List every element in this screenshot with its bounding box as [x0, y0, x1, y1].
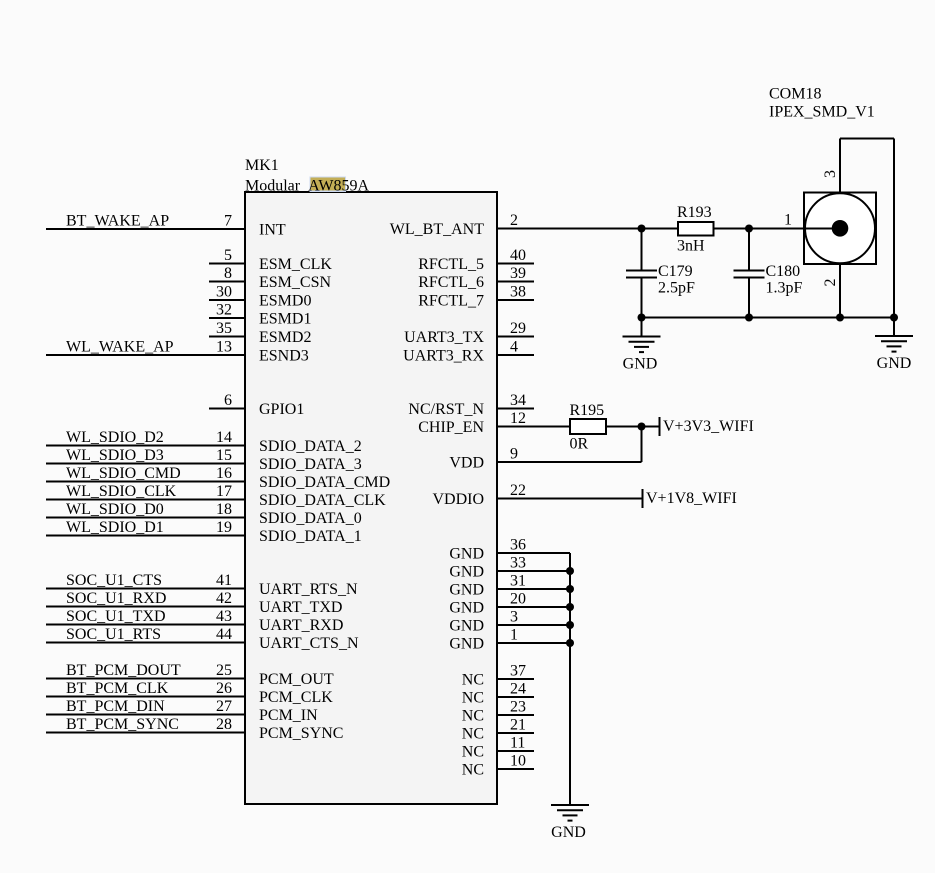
wire net WL_SDIO_D3 to pin 15: [46, 463, 245, 465]
svg-text:NC: NC: [462, 726, 484, 743]
svg-text:BT_PCM_DOUT: BT_PCM_DOUT: [66, 662, 181, 679]
wire C179 to ground: [641, 318, 643, 337]
svg-text:BT_PCM_CLK: BT_PCM_CLK: [66, 680, 169, 697]
svg-text:30: 30: [216, 284, 232, 301]
wire pin 5 stub: [209, 263, 245, 265]
wire bus to ground right: [893, 318, 895, 337]
wire net BT_PCM_DIN to pin 27: [46, 714, 245, 716]
wire net BT_PCM_CLK to pin 26: [46, 696, 245, 698]
svg-text:R195: R195: [570, 402, 605, 419]
svg-text:PCM_OUT: PCM_OUT: [259, 671, 334, 688]
svg-text:6: 6: [224, 392, 232, 409]
wire net WL_SDIO_CLK to pin 17: [46, 499, 245, 501]
svg-text:34: 34: [510, 392, 526, 409]
wire pin 24 stub: [497, 696, 534, 698]
wire VDD riser: [641, 427, 643, 463]
svg-text:9: 9: [510, 446, 518, 463]
svg-text:GND: GND: [449, 582, 484, 599]
svg-text:PCM_SYNC: PCM_SYNC: [259, 725, 343, 742]
junction C179 bottom: [638, 314, 646, 322]
svg-text:SDIO_DATA_0: SDIO_DATA_0: [259, 510, 362, 527]
junction GND bus pin 20: [566, 603, 574, 611]
svg-text:2.5pF: 2.5pF: [658, 280, 695, 297]
svg-text:Modular_AW859A: Modular_AW859A: [245, 178, 369, 195]
svg-text:BT_PCM_SYNC: BT_PCM_SYNC: [66, 716, 179, 733]
svg-text:SOC_U1_RTS: SOC_U1_RTS: [66, 626, 161, 643]
svg-text:3: 3: [822, 170, 839, 178]
svg-text:RFCTL_6: RFCTL_6: [418, 274, 484, 291]
svg-text:10: 10: [510, 753, 526, 770]
svg-text:24: 24: [510, 681, 526, 698]
svg-text:11: 11: [510, 735, 525, 752]
svg-text:PCM_IN: PCM_IN: [259, 707, 318, 724]
svg-text:ESMD0: ESMD0: [259, 293, 311, 310]
wire pin 38 stub: [497, 299, 534, 301]
wire COM18 pin2 down: [839, 264, 841, 318]
svg-text:CHIP_EN: CHIP_EN: [418, 419, 484, 436]
svg-text:INT: INT: [259, 222, 286, 239]
svg-text:WL_SDIO_D0: WL_SDIO_D0: [66, 501, 164, 518]
svg-text:41: 41: [216, 572, 232, 589]
svg-text:1: 1: [784, 212, 792, 229]
junction GND bus pin 33: [566, 567, 574, 575]
svg-text:7: 7: [224, 213, 232, 230]
svg-text:GND: GND: [449, 636, 484, 653]
wire net SOC_U1_CTS to pin 41: [46, 588, 245, 590]
wire pin 10 stub: [497, 768, 534, 770]
svg-text:1.3pF: 1.3pF: [766, 280, 803, 297]
junction VDD riser: [638, 423, 646, 431]
wire COM18 right down: [893, 139, 895, 318]
svg-text:26: 26: [216, 680, 232, 697]
svg-text:3: 3: [510, 609, 518, 626]
wire pin 30 stub: [209, 299, 245, 301]
junction at C180 top: [745, 225, 753, 233]
svg-text:VDD: VDD: [449, 455, 484, 472]
wire net WL_SDIO_D2 to pin 14: [46, 445, 245, 447]
svg-text:17: 17: [216, 483, 232, 500]
svg-text:8: 8: [224, 265, 232, 282]
wire CHIP_EN to R195: [497, 426, 570, 428]
svg-text:32: 32: [216, 302, 232, 319]
svg-text:GND: GND: [449, 564, 484, 581]
wire net SOC_U1_RXD to pin 42: [46, 606, 245, 608]
wire pin 8 stub: [209, 281, 245, 283]
svg-text:COM18: COM18: [769, 86, 821, 103]
wire ground bus under antenna: [642, 317, 895, 319]
svg-text:SDIO_DATA_1: SDIO_DATA_1: [259, 528, 362, 545]
svg-text:29: 29: [510, 320, 526, 337]
wire pin 4 stub: [497, 354, 534, 356]
svg-text:V+3V3_WIFI: V+3V3_WIFI: [663, 418, 754, 435]
svg-text:15: 15: [216, 447, 232, 464]
svg-text:36: 36: [510, 537, 526, 554]
svg-text:14: 14: [216, 429, 232, 446]
svg-text:SDIO_DATA_2: SDIO_DATA_2: [259, 438, 362, 455]
svg-text:IPEX_SMD_V1: IPEX_SMD_V1: [769, 104, 875, 121]
svg-text:ESMD2: ESMD2: [259, 329, 311, 346]
ground GND under C179: [623, 337, 661, 353]
svg-text:SOC_U1_RXD: SOC_U1_RXD: [66, 590, 166, 607]
connector COM18 body: [804, 193, 876, 265]
junction GND bus pin 3: [566, 621, 574, 629]
wire COM18 pin3 up: [839, 139, 841, 193]
svg-text:1: 1: [510, 627, 518, 644]
wire net BT_PCM_SYNC to pin 28: [46, 732, 245, 734]
wire GND pin 1: [497, 642, 570, 644]
svg-text:C179: C179: [658, 263, 693, 280]
wire net WL_WAKE_AP to pin 13: [46, 354, 245, 356]
svg-text:21: 21: [510, 717, 526, 734]
wire pin 23 stub: [497, 714, 534, 716]
svg-text:GPIO1: GPIO1: [259, 401, 304, 418]
wire COM18 pin1 into connector: [804, 228, 840, 230]
wire pin 39 stub: [497, 281, 534, 283]
svg-text:13: 13: [216, 339, 232, 356]
wire pin 34 stub: [497, 408, 534, 410]
svg-text:42: 42: [216, 590, 232, 607]
wire pin 35 stub: [209, 336, 245, 338]
svg-text:NC: NC: [462, 762, 484, 779]
wire pin 40 stub: [497, 263, 534, 265]
wire pin 21 stub: [497, 732, 534, 734]
wire VDDIO to V+1V8_WIFI: [497, 498, 643, 500]
svg-text:SDIO_DATA_3: SDIO_DATA_3: [259, 456, 362, 473]
svg-text:MK1: MK1: [245, 157, 279, 174]
svg-text:44: 44: [216, 626, 232, 643]
svg-text:NC: NC: [462, 744, 484, 761]
svg-text:UART_TXD: UART_TXD: [259, 599, 342, 616]
svg-text:0R: 0R: [570, 436, 589, 453]
wire COM18 top across: [840, 138, 894, 140]
wire pin 32 stub: [209, 317, 245, 319]
svg-text:GND: GND: [449, 618, 484, 635]
ground GND bottom: [551, 805, 589, 821]
component MK1 body: [245, 192, 497, 804]
junction COM18 pin3 return: [890, 314, 898, 322]
wire WL_BT_ANT pin2 to R193: [497, 228, 677, 230]
svg-text:28: 28: [216, 716, 232, 733]
power symbol V+1V8_WIFI: [642, 489, 644, 508]
ground GND right: [875, 336, 913, 352]
svg-text:40: 40: [510, 247, 526, 264]
svg-text:NC: NC: [462, 690, 484, 707]
wire pin 37 stub: [497, 678, 534, 680]
wire net WL_SDIO_CMD to pin 16: [46, 481, 245, 483]
svg-text:C180: C180: [766, 263, 801, 280]
svg-text:35: 35: [216, 320, 232, 337]
svg-text:ESND3: ESND3: [259, 348, 309, 365]
svg-text:5: 5: [224, 247, 232, 264]
svg-text:WL_SDIO_CLK: WL_SDIO_CLK: [66, 483, 177, 500]
svg-text:38: 38: [510, 284, 526, 301]
junction COM18 pin2: [836, 314, 844, 322]
inductor R193 body: [678, 222, 714, 236]
svg-text:ESM_CSN: ESM_CSN: [259, 274, 331, 291]
svg-text:25: 25: [216, 662, 232, 679]
svg-text:GND: GND: [449, 546, 484, 563]
value Modular_AW859A highlight: [310, 177, 347, 193]
svg-text:GND: GND: [877, 355, 912, 372]
svg-text:UART_RXD: UART_RXD: [259, 617, 343, 634]
svg-text:ESMD1: ESMD1: [259, 311, 311, 328]
wire net BT_WAKE_AP to pin 7: [46, 228, 245, 230]
wire GND pin 31: [497, 588, 570, 590]
junction GND bus pin 31: [566, 585, 574, 593]
wire net SOC_U1_RTS to pin 44: [46, 642, 245, 644]
svg-text:23: 23: [510, 699, 526, 716]
svg-text:20: 20: [510, 591, 526, 608]
svg-text:19: 19: [216, 519, 232, 536]
svg-text:WL_SDIO_D2: WL_SDIO_D2: [66, 429, 164, 446]
svg-text:27: 27: [216, 698, 232, 715]
svg-text:SDIO_DATA_CLK: SDIO_DATA_CLK: [259, 492, 386, 509]
svg-text:4: 4: [510, 339, 518, 356]
capacitor C179: [626, 229, 657, 318]
wire R195 to V+3V3_WIFI: [606, 426, 660, 428]
svg-text:GND: GND: [623, 356, 658, 373]
svg-text:2: 2: [510, 212, 518, 229]
wire pin 11 stub: [497, 750, 534, 752]
svg-text:GND: GND: [551, 824, 586, 841]
junction C180 bottom: [745, 314, 753, 322]
wire net SOC_U1_TXD to pin 43: [46, 624, 245, 626]
svg-text:SDIO_DATA_CMD: SDIO_DATA_CMD: [259, 474, 390, 491]
svg-text:SOC_U1_TXD: SOC_U1_TXD: [66, 608, 166, 625]
svg-text:GND: GND: [449, 600, 484, 617]
svg-text:VDDIO: VDDIO: [432, 491, 484, 508]
svg-text:UART_RTS_N: UART_RTS_N: [259, 581, 358, 598]
wire pin 6 stub: [209, 408, 245, 410]
svg-text:33: 33: [510, 555, 526, 572]
svg-text:WL_SDIO_CMD: WL_SDIO_CMD: [66, 465, 181, 482]
svg-text:3nH: 3nH: [677, 238, 705, 255]
wire VDD pin9: [497, 461, 642, 463]
resistor R195 body: [570, 419, 606, 434]
capacitor C180: [734, 229, 765, 318]
junction GND bus pin 1: [566, 639, 574, 647]
svg-text:NC: NC: [462, 672, 484, 689]
wire R193 to COM18 pin1: [713, 228, 840, 230]
wire GND pin 33: [497, 570, 570, 572]
wire GND bus vertical: [569, 553, 571, 805]
svg-text:31: 31: [510, 573, 526, 590]
svg-text:WL_BT_ANT: WL_BT_ANT: [390, 221, 484, 238]
wire net WL_SDIO_D0 to pin 18: [46, 517, 245, 519]
svg-text:NC/RST_N: NC/RST_N: [408, 401, 484, 418]
svg-text:12: 12: [510, 410, 526, 427]
svg-text:BT_WAKE_AP: BT_WAKE_AP: [66, 213, 169, 230]
svg-text:UART3_RX: UART3_RX: [403, 348, 484, 365]
svg-text:37: 37: [510, 663, 526, 680]
svg-text:WL_WAKE_AP: WL_WAKE_AP: [66, 339, 174, 356]
svg-text:18: 18: [216, 501, 232, 518]
svg-text:NC: NC: [462, 708, 484, 725]
svg-text:43: 43: [216, 608, 232, 625]
wire net BT_PCM_DOUT to pin 25: [46, 678, 245, 680]
svg-text:2: 2: [822, 279, 839, 287]
svg-text:V+1V8_WIFI: V+1V8_WIFI: [646, 490, 737, 507]
wire GND pin 3: [497, 624, 570, 626]
power symbol V+3V3_WIFI: [659, 417, 661, 436]
svg-text:RFCTL_5: RFCTL_5: [418, 256, 484, 273]
wire net WL_SDIO_D1 to pin 19: [46, 535, 245, 537]
svg-text:UART_CTS_N: UART_CTS_N: [259, 635, 359, 652]
svg-text:ESM_CLK: ESM_CLK: [259, 256, 332, 273]
svg-text:PCM_CLK: PCM_CLK: [259, 689, 333, 706]
svg-text:R193: R193: [677, 204, 712, 221]
wire pin 29 stub: [497, 336, 534, 338]
svg-text:WL_SDIO_D1: WL_SDIO_D1: [66, 519, 164, 536]
svg-text:22: 22: [510, 482, 526, 499]
svg-text:16: 16: [216, 465, 232, 482]
svg-text:UART3_TX: UART3_TX: [404, 329, 484, 346]
svg-text:WL_SDIO_D3: WL_SDIO_D3: [66, 447, 164, 464]
junction at C179 top: [638, 225, 646, 233]
wire GND pin 36: [497, 552, 570, 554]
svg-text:BT_PCM_DIN: BT_PCM_DIN: [66, 698, 165, 715]
svg-text:39: 39: [510, 265, 526, 282]
svg-text:SOC_U1_CTS: SOC_U1_CTS: [66, 572, 162, 589]
wire GND pin 20: [497, 606, 570, 608]
svg-text:RFCTL_7: RFCTL_7: [418, 293, 484, 310]
